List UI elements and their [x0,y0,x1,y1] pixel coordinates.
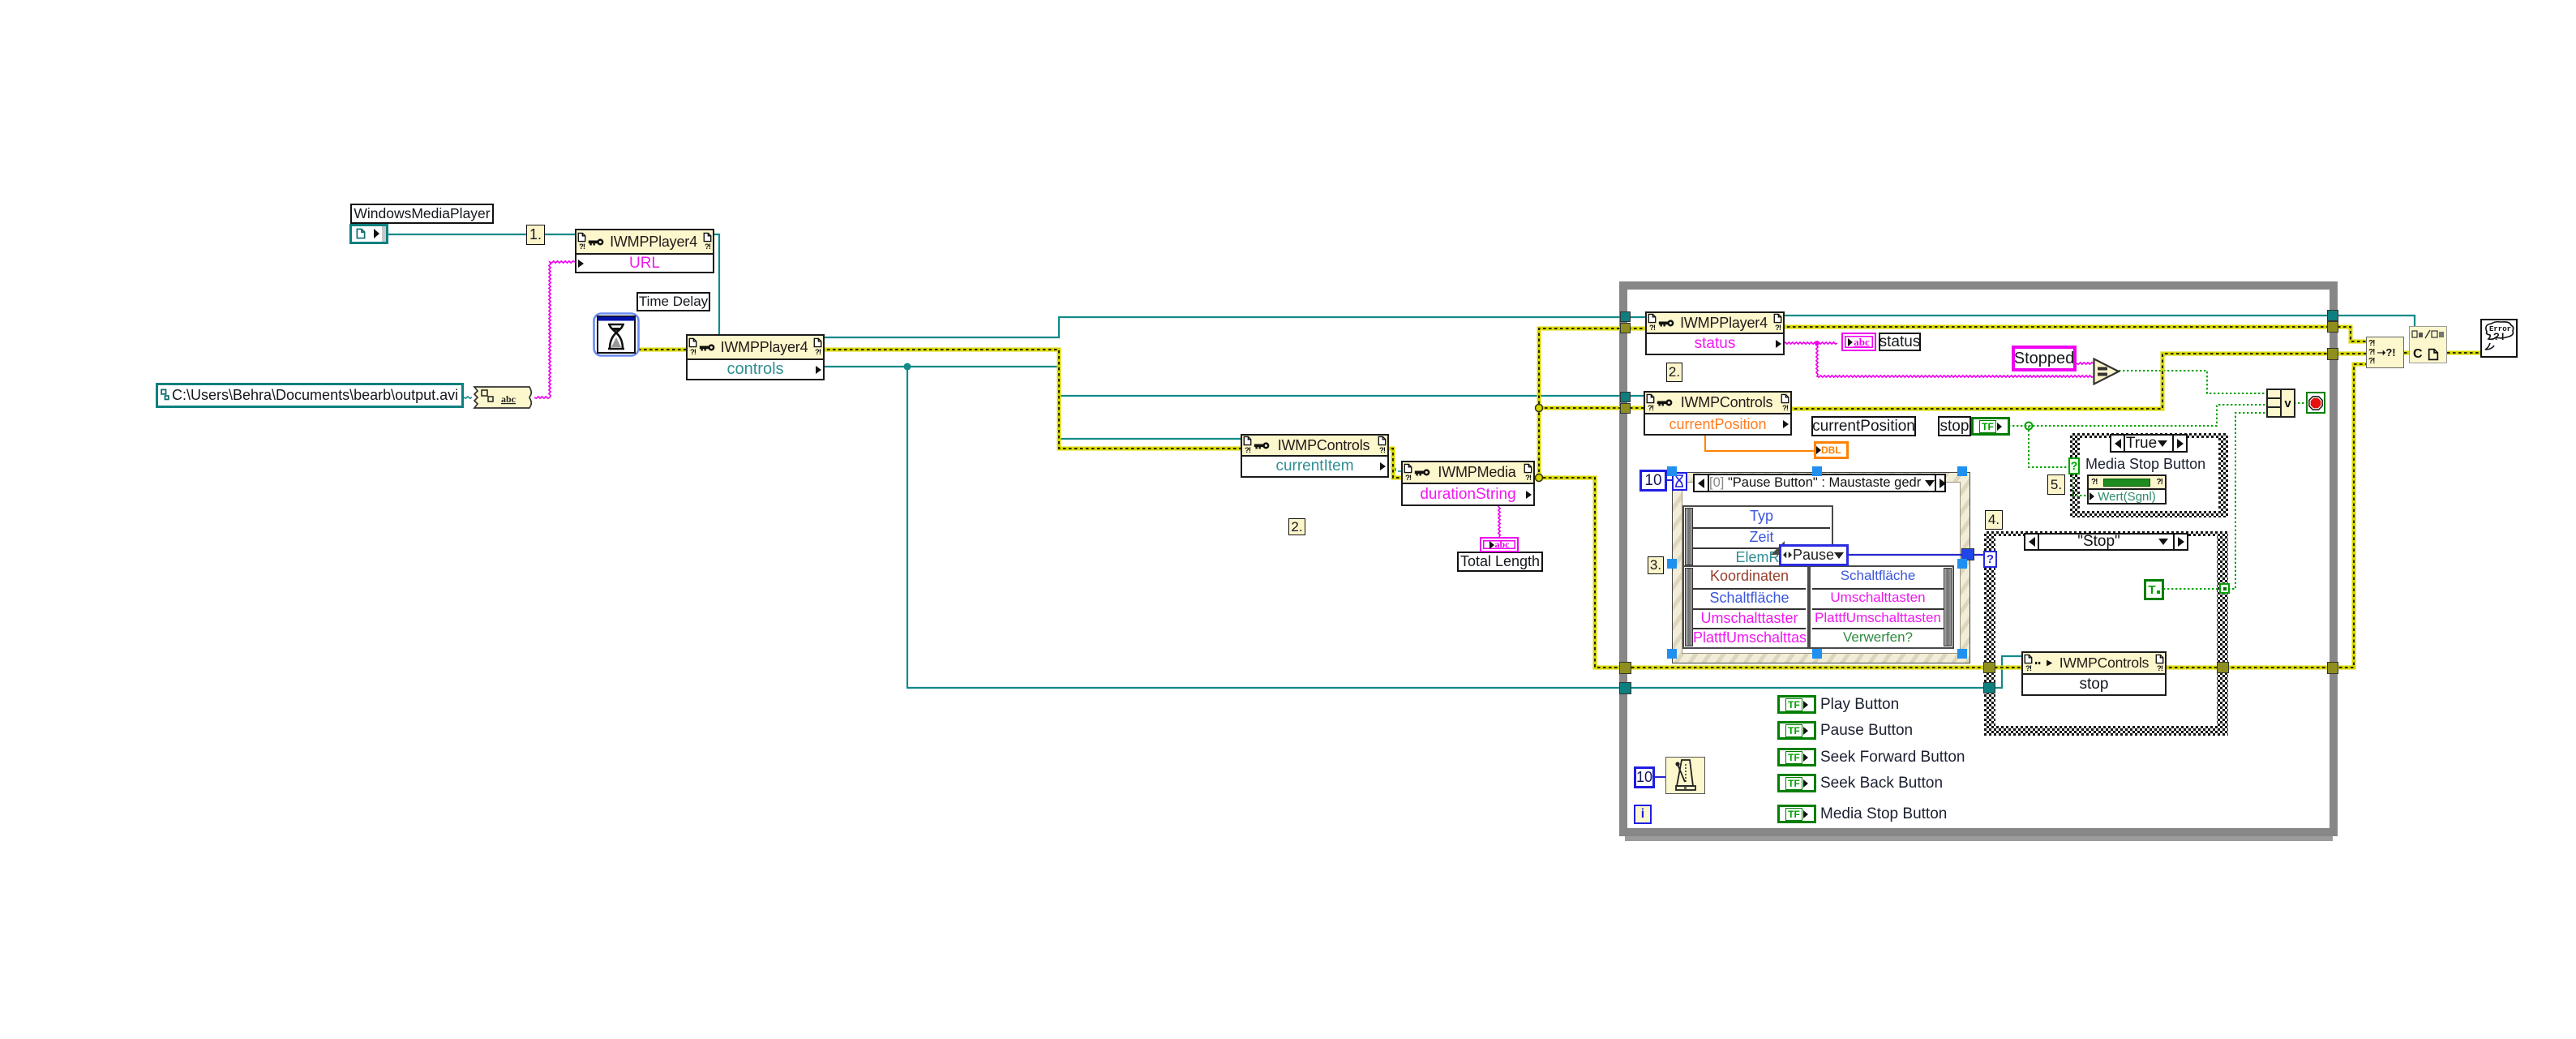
svg-text:abc: abc [501,393,516,405]
svg-text:?!: ?! [2493,331,2506,343]
